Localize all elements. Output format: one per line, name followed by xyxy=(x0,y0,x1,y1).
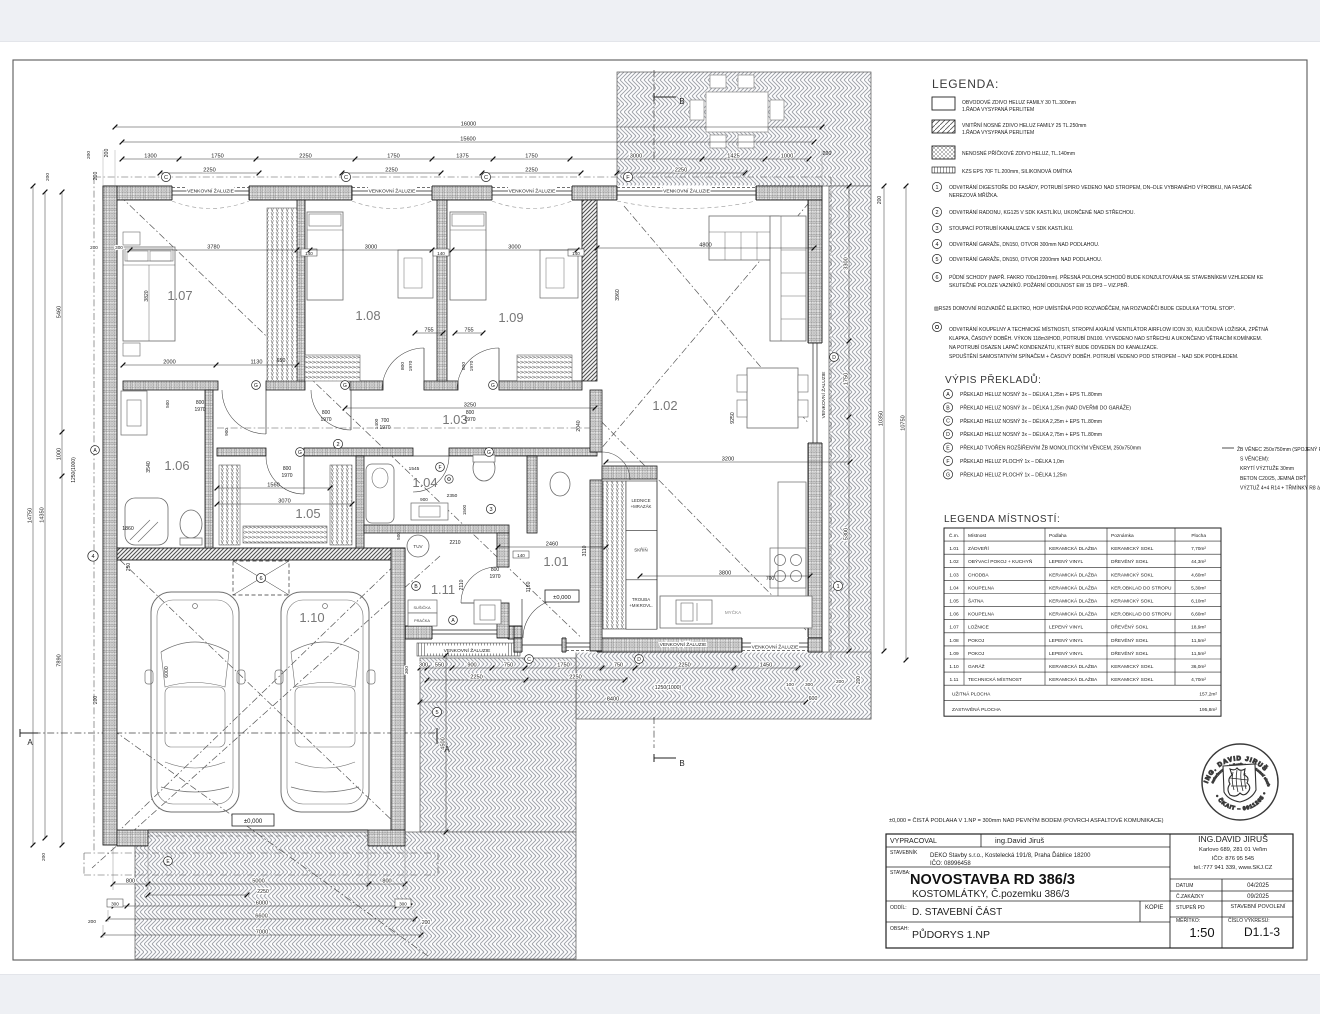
svg-text:SUŠIČKA: SUŠIČKA xyxy=(413,605,430,610)
svg-text:750: 750 xyxy=(504,662,513,668)
svg-text:44,3m²: 44,3m² xyxy=(1191,559,1206,565)
svg-text:ODVěTRÁNÍ KOUPELNY A TECHNICKÉ: ODVěTRÁNÍ KOUPELNY A TECHNICKÉ MÍSTNOSTI… xyxy=(949,325,1269,333)
svg-text:15600: 15600 xyxy=(460,136,476,142)
svg-text:2250: 2250 xyxy=(257,889,269,895)
svg-text:DEKO Stavby s.r.o., Kostelecká: DEKO Stavby s.r.o., Kostelecká 191/8, Pr… xyxy=(930,851,1091,859)
svg-text:1.04: 1.04 xyxy=(412,475,437,490)
svg-text:KER.OBKLAD DO STROPU: KER.OBKLAD DO STROPU xyxy=(1111,612,1172,618)
svg-text:5000: 5000 xyxy=(252,878,264,884)
svg-text:C: C xyxy=(164,175,168,181)
svg-text:1750: 1750 xyxy=(525,153,537,159)
svg-text:BETON C20/25, JEMNÁ DRŤ: BETON C20/25, JEMNÁ DRŤ xyxy=(1240,474,1306,482)
svg-text:LEDNICE: LEDNICE xyxy=(631,498,650,503)
svg-text:2210: 2210 xyxy=(449,540,460,546)
svg-text:PŘEKLAD HELUZ NOSNÝ 3x – DÉLKA: PŘEKLAD HELUZ NOSNÝ 3x – DÉLKA 1,25m + E… xyxy=(960,390,1102,398)
svg-text:VYPRACOVAL: VYPRACOVAL xyxy=(890,838,937,845)
svg-text:ING.DAVID JIRUŠ: ING.DAVID JIRUŠ xyxy=(1198,834,1268,844)
svg-text:TROUBA: TROUBA xyxy=(632,597,650,602)
svg-text:OBSAH:: OBSAH: xyxy=(890,926,909,932)
svg-text:1970: 1970 xyxy=(379,425,390,431)
svg-text:PRAČKA: PRAČKA xyxy=(414,618,430,623)
svg-text:KOUPELNA: KOUPELNA xyxy=(968,612,995,618)
svg-text:3: 3 xyxy=(936,226,939,232)
svg-text:800: 800 xyxy=(491,567,500,573)
svg-text:1750: 1750 xyxy=(211,153,223,159)
svg-text:800: 800 xyxy=(196,400,205,406)
svg-text:1.06: 1.06 xyxy=(164,458,189,473)
svg-text:4,70m²: 4,70m² xyxy=(1191,677,1206,683)
svg-text:ing.David Jiruš: ing.David Jiruš xyxy=(995,836,1044,845)
svg-text:3820: 3820 xyxy=(144,290,150,301)
svg-text:LEPENÝ VINYL: LEPENÝ VINYL xyxy=(1049,558,1083,565)
svg-text:TECHNICKÁ MÍSTNOST: TECHNICKÁ MÍSTNOST xyxy=(968,676,1022,683)
svg-text:1.09: 1.09 xyxy=(498,310,523,325)
svg-text:7890: 7890 xyxy=(56,654,62,666)
svg-text:1970: 1970 xyxy=(489,574,500,580)
svg-text:5460: 5460 xyxy=(56,306,62,318)
svg-text:195,8m²: 195,8m² xyxy=(1199,707,1217,713)
svg-text:Karlovo 689, 281 01 Veľim: Karlovo 689, 281 01 Veľim xyxy=(1199,847,1267,853)
svg-text:PŘEKLAD TVOŘEN ROZŠÍŘENÝM ŽB M: PŘEKLAD TVOŘEN ROZŠÍŘENÝM ŽB MONOLITICKÝ… xyxy=(960,444,1141,452)
svg-text:2350: 2350 xyxy=(447,493,458,499)
svg-text:3200: 3200 xyxy=(722,456,734,462)
svg-text:7000: 7000 xyxy=(256,929,268,935)
svg-text:100: 100 xyxy=(786,682,794,688)
svg-text:D: D xyxy=(832,355,836,361)
svg-text:1970: 1970 xyxy=(464,417,475,423)
svg-text:300: 300 xyxy=(404,666,410,674)
svg-text:G: G xyxy=(491,383,495,389)
svg-text:700: 700 xyxy=(381,418,390,424)
svg-text:4800: 4800 xyxy=(699,242,711,248)
svg-text:±0,000: ±0,000 xyxy=(244,819,263,825)
svg-text:3110: 3110 xyxy=(582,545,588,556)
svg-text:G: G xyxy=(343,383,347,389)
svg-text:STAVEBNÍK: STAVEBNÍK xyxy=(890,849,918,856)
svg-text:G: G xyxy=(946,472,950,478)
svg-text:1.01: 1.01 xyxy=(949,546,959,552)
svg-text:1: 1 xyxy=(936,185,939,191)
svg-text:2110: 2110 xyxy=(459,579,465,590)
svg-text:+MIKROVL.: +MIKROVL. xyxy=(629,603,653,608)
svg-text:OBVODOVÉ ZDIVO HELUZ FAMILY 30: OBVODOVÉ ZDIVO HELUZ FAMILY 30 TL.300mm xyxy=(962,99,1076,106)
svg-text:G: G xyxy=(254,383,258,389)
svg-text:MYČKA: MYČKA xyxy=(725,609,742,615)
svg-text:1450: 1450 xyxy=(760,662,772,668)
svg-text:D1.1-3: D1.1-3 xyxy=(1244,925,1280,939)
svg-text:ŠATNA: ŠATNA xyxy=(968,598,984,605)
svg-text:1130: 1130 xyxy=(250,359,262,365)
svg-text:36,0m²: 36,0m² xyxy=(1191,664,1206,670)
svg-text:1.02: 1.02 xyxy=(949,559,959,565)
svg-text:1000: 1000 xyxy=(781,153,793,159)
svg-text:1970: 1970 xyxy=(194,407,205,413)
svg-text:3070: 3070 xyxy=(278,498,290,504)
svg-text:1000: 1000 xyxy=(56,448,62,460)
svg-text:KOSTOMLÁTKY, Č.pozemku 386/3: KOSTOMLÁTKY, Č.pozemku 386/3 xyxy=(912,887,1070,900)
svg-text:DATUM: DATUM xyxy=(1176,883,1193,889)
svg-text:KERAMICKÝ SOKL: KERAMICKÝ SOKL xyxy=(1111,598,1154,605)
svg-text:200: 200 xyxy=(93,172,99,181)
svg-text:800: 800 xyxy=(461,362,467,370)
svg-text:PŮDORYS 1.NP: PŮDORYS 1.NP xyxy=(912,928,990,941)
svg-text:±0,000 = ČISTÁ PODLAHA V 1.NP: ±0,000 = ČISTÁ PODLAHA V 1.NP = 300mm NA… xyxy=(889,817,1164,824)
svg-text:PŘEKLAD HELUZ NOSNÝ 3x – DÉLKA: PŘEKLAD HELUZ NOSNÝ 3x – DÉLKA 1,25m (NA… xyxy=(960,403,1131,411)
svg-text:1970: 1970 xyxy=(408,360,414,371)
svg-text:04/2025: 04/2025 xyxy=(1247,883,1269,889)
svg-text:4: 4 xyxy=(91,554,94,560)
svg-text:PŘEKLAD HELUZ NOSNÝ 3x – DÉLKA: PŘEKLAD HELUZ NOSNÝ 3x – DÉLKA 2,75m + E… xyxy=(960,430,1102,438)
svg-text:1.08: 1.08 xyxy=(949,638,959,644)
svg-text:3250: 3250 xyxy=(464,402,476,408)
svg-text:2: 2 xyxy=(336,442,339,448)
svg-text:F: F xyxy=(946,459,949,465)
svg-text:1.07: 1.07 xyxy=(949,625,959,631)
svg-text:200: 200 xyxy=(41,853,47,861)
svg-text:3300: 3300 xyxy=(843,257,849,269)
svg-text:F: F xyxy=(438,465,441,471)
svg-text:200: 200 xyxy=(45,173,51,181)
svg-text:800: 800 xyxy=(382,878,391,884)
svg-text:4,60m²: 4,60m² xyxy=(1191,572,1206,578)
svg-text:1.10: 1.10 xyxy=(299,610,324,625)
svg-text:D: D xyxy=(946,432,950,438)
svg-text:18,9m²: 18,9m² xyxy=(1191,625,1206,631)
svg-text:200: 200 xyxy=(86,151,92,159)
svg-text:3780: 3780 xyxy=(207,244,219,250)
svg-text:600: 600 xyxy=(809,696,818,702)
svg-text:1860: 1860 xyxy=(122,526,134,532)
svg-text:MĚŘÍTKO:: MĚŘÍTKO: xyxy=(1176,916,1200,924)
svg-text:B: B xyxy=(946,405,950,411)
svg-text:S VĚNCEM):: S VĚNCEM): xyxy=(1240,455,1269,463)
svg-text:2250: 2250 xyxy=(470,674,482,680)
svg-text:1970: 1970 xyxy=(320,417,331,423)
svg-text:6: 6 xyxy=(936,275,939,281)
svg-text:LEPENÝ VINYL: LEPENÝ VINYL xyxy=(1049,637,1083,644)
svg-text:800: 800 xyxy=(126,878,135,884)
svg-text:SPOUŠTĚNÍ SAMOSTATNÝM SPÍNAČEM: SPOUŠTĚNÍ SAMOSTATNÝM SPÍNAČEM + ČASOVÝ … xyxy=(949,352,1238,360)
svg-text:140: 140 xyxy=(437,251,445,256)
svg-text:2250: 2250 xyxy=(299,153,311,159)
svg-text:900: 900 xyxy=(467,662,476,668)
svg-text:1:50: 1:50 xyxy=(1189,925,1214,940)
svg-text:500: 500 xyxy=(396,532,401,540)
svg-text:3000: 3000 xyxy=(630,153,642,159)
svg-text:ČÍSLO VÝKRESU:: ČÍSLO VÝKRESU: xyxy=(1228,917,1270,924)
svg-text:10750: 10750 xyxy=(900,415,906,431)
svg-text:3: 3 xyxy=(489,507,492,513)
svg-text:LEPENÝ VINYL: LEPENÝ VINYL xyxy=(1049,650,1083,657)
svg-text:1.05: 1.05 xyxy=(295,506,320,521)
svg-text:Č.m.: Č.m. xyxy=(949,532,959,539)
svg-text:5,30m²: 5,30m² xyxy=(1191,585,1206,591)
svg-text:1300: 1300 xyxy=(144,153,156,159)
svg-text:+MRAZÁK: +MRAZÁK xyxy=(631,504,652,509)
svg-text:1.10: 1.10 xyxy=(949,664,959,670)
svg-text:F: F xyxy=(626,175,630,181)
svg-text:KERAMICKÝ SOKL: KERAMICKÝ SOKL xyxy=(1111,571,1154,578)
svg-text:NA POTRUBÍ OSAZEN LAPAČ KONDEN: NA POTRUBÍ OSAZEN LAPAČ KONDENZÁTU, KTER… xyxy=(949,344,1158,351)
svg-text:2040: 2040 xyxy=(576,420,582,431)
svg-text:1750: 1750 xyxy=(387,153,399,159)
svg-text:2000: 2000 xyxy=(163,359,175,365)
svg-text:Č.ZAKÁZKY: Č.ZAKÁZKY xyxy=(1176,893,1204,900)
svg-text:Plocha: Plocha xyxy=(1191,533,1206,539)
svg-text:CHODBA: CHODBA xyxy=(968,572,989,578)
svg-text:1.03: 1.03 xyxy=(949,572,959,578)
svg-text:KOPIE: KOPIE xyxy=(1145,905,1163,911)
svg-text:1160: 1160 xyxy=(526,581,532,592)
svg-text:800: 800 xyxy=(322,410,331,416)
svg-text:1.06: 1.06 xyxy=(949,612,959,618)
svg-text:1970: 1970 xyxy=(281,473,292,479)
svg-text:tel.:777 941 339, www.SKJ.CZ: tel.:777 941 339, www.SKJ.CZ xyxy=(1194,865,1273,871)
svg-text:KERAMICKÝ SOKL: KERAMICKÝ SOKL xyxy=(1111,676,1154,683)
svg-text:5300: 5300 xyxy=(843,528,849,540)
svg-text:10350: 10350 xyxy=(878,411,884,427)
svg-text:3540: 3540 xyxy=(146,461,152,473)
svg-text:OBÝVACÍ POKOJ + KUCHYŇ: OBÝVACÍ POKOJ + KUCHYŇ xyxy=(968,558,1033,565)
svg-text:3000: 3000 xyxy=(365,244,377,250)
svg-text:B: B xyxy=(679,759,684,768)
svg-text:700: 700 xyxy=(766,576,775,582)
svg-text:VÝPIS PŘEKLADŮ:: VÝPIS PŘEKLADŮ: xyxy=(945,373,1041,386)
svg-text:3800: 3800 xyxy=(719,570,731,576)
svg-text:550: 550 xyxy=(435,662,444,668)
svg-text:NOVOSTAVBA RD 386/3: NOVOSTAVBA RD 386/3 xyxy=(910,872,1075,888)
svg-text:NEREZOVÁ MŘÍŽKA.: NEREZOVÁ MŘÍŽKA. xyxy=(949,191,998,199)
svg-text:140: 140 xyxy=(305,251,313,256)
svg-text:4: 4 xyxy=(936,242,939,248)
svg-text:1.09: 1.09 xyxy=(949,651,959,657)
svg-text:300: 300 xyxy=(111,902,119,907)
svg-text:C: C xyxy=(484,175,488,181)
svg-text:Podlaha: Podlaha xyxy=(1049,533,1067,539)
svg-text:C: C xyxy=(344,175,348,181)
svg-text:1: 1 xyxy=(836,584,839,590)
svg-text:1750: 1750 xyxy=(843,373,849,385)
svg-text:SKUTEČNÉ POLOZE VAZNÍKŮ. POŽÁR: SKUTEČNÉ POLOZE VAZNÍKŮ. POŽÁRNÍ ODOLNOS… xyxy=(949,281,1129,289)
svg-text:VNITŘNÍ NOSNÉ ZDIVO HELUZ FAMI: VNITŘNÍ NOSNÉ ZDIVO HELUZ FAMILY 25 TL.2… xyxy=(962,121,1086,129)
svg-text:2250: 2250 xyxy=(385,167,397,173)
svg-text:1750: 1750 xyxy=(557,662,569,668)
svg-text:1500: 1500 xyxy=(462,504,467,515)
svg-text:KLAPKA, ČASOVÝ DOBĚH. VÝKON 11: KLAPKA, ČASOVÝ DOBĚH. VÝKON 118m3/HOD, P… xyxy=(949,334,1262,342)
svg-text:KZS EPS 70F TL.200mm, SILIKONO: KZS EPS 70F TL.200mm, SILIKONOVÁ OMÍTKA xyxy=(962,168,1073,175)
svg-text:A: A xyxy=(27,738,33,747)
svg-text:1.08: 1.08 xyxy=(355,308,380,323)
svg-text:2250: 2250 xyxy=(203,167,215,173)
svg-text:ŽB VĚNEC 250x750mm (SPOJENÝ PŘ: ŽB VĚNEC 250x750mm (SPOJENÝ PŘEKLAD xyxy=(1237,445,1320,453)
svg-text:3000: 3000 xyxy=(508,244,520,250)
svg-text:650: 650 xyxy=(277,358,286,364)
svg-text:750: 750 xyxy=(614,662,623,668)
svg-text:14350: 14350 xyxy=(39,507,45,523)
svg-text:800: 800 xyxy=(283,466,292,472)
svg-text:G: G xyxy=(298,450,302,456)
svg-text:IČO: 08996458: IČO: 08996458 xyxy=(930,860,971,867)
svg-text:ODVěTRÁNÍ RADONU, KG125 V SDK: ODVěTRÁNÍ RADONU, KG125 V SDK KASTLÍKU, … xyxy=(949,208,1135,216)
svg-text:755: 755 xyxy=(464,327,473,333)
svg-text:1970: 1970 xyxy=(469,360,475,371)
svg-text:LEGENDA:: LEGENDA: xyxy=(932,77,999,91)
svg-text:▨RS25 DOMOVNÍ ROZVADĚČ ELEKTRO: ▨RS25 DOMOVNÍ ROZVADĚČ ELEKTRO, HOP UMÍS… xyxy=(934,304,1235,312)
svg-text:6000: 6000 xyxy=(256,900,268,906)
svg-text:2250: 2250 xyxy=(678,662,690,668)
svg-text:LEGENDA MÍSTNOSTÍ:: LEGENDA MÍSTNOSTÍ: xyxy=(944,512,1060,525)
svg-text:1.01: 1.01 xyxy=(543,554,568,569)
svg-text:VÝZTUŽ 4+4 R14 + TŘMÍNKY R8 à: VÝZTUŽ 4+4 R14 + TŘMÍNKY R8 à 150mm xyxy=(1240,483,1320,491)
svg-text:ODDÍL:: ODDÍL: xyxy=(890,904,907,911)
svg-text:1.11: 1.11 xyxy=(431,582,455,597)
svg-text:1.ŘADA VYSYPANÁ PERLITEM: 1.ŘADA VYSYPANÁ PERLITEM xyxy=(962,128,1034,136)
svg-text:1250(1000): 1250(1000) xyxy=(71,457,77,483)
svg-text:6000: 6000 xyxy=(164,666,170,678)
svg-text:6,10m²: 6,10m² xyxy=(1191,599,1206,605)
svg-text:5: 5 xyxy=(936,257,939,263)
svg-text:D: D xyxy=(637,657,641,663)
svg-text:200: 200 xyxy=(836,679,844,685)
svg-text:300: 300 xyxy=(419,662,428,668)
svg-text:500: 500 xyxy=(165,400,170,408)
svg-text:ODVěTRÁNÍ DIGESTOŘE DO FASÁDY,: ODVěTRÁNÍ DIGESTOŘE DO FASÁDY, POTRUBÍ S… xyxy=(949,183,1253,191)
svg-text:1.04: 1.04 xyxy=(949,585,959,591)
svg-text:250: 250 xyxy=(126,563,132,572)
svg-text:1560: 1560 xyxy=(267,482,279,488)
svg-text:STAVBA:: STAVBA: xyxy=(890,870,910,876)
svg-text:SKŘÍŇ: SKŘÍŇ xyxy=(634,547,647,552)
svg-text:11,5m²: 11,5m² xyxy=(1191,638,1206,644)
svg-text:1.07: 1.07 xyxy=(167,288,192,303)
svg-text:A: A xyxy=(946,392,950,398)
svg-text:2: 2 xyxy=(936,210,939,216)
svg-text:D. STAVEBNÍ ČÁST: D. STAVEBNÍ ČÁST xyxy=(912,905,1002,918)
svg-text:ODVěTRÁNÍ GARÁŽE, DN150, OTVOR: ODVěTRÁNÍ GARÁŽE, DN150, OTVOR 300mm NAD… xyxy=(949,240,1099,248)
svg-text:5: 5 xyxy=(435,710,438,716)
svg-text:STAVEBNÍ POVOLENÍ: STAVEBNÍ POVOLENÍ xyxy=(1231,903,1286,910)
svg-text:KER.OBKLAD DO STROPU: KER.OBKLAD DO STROPU xyxy=(1111,585,1172,591)
svg-text:200: 200 xyxy=(856,676,862,685)
svg-text:KRYTÍ VÝZTUŽE 30mm: KRYTÍ VÝZTUŽE 30mm xyxy=(1240,464,1294,472)
svg-text:1425: 1425 xyxy=(727,153,739,159)
svg-text:2250: 2250 xyxy=(569,674,581,680)
svg-text:STOUPACÍ POTRUBÍ KANALIZACE V: STOUPACÍ POTRUBÍ KANALIZACE V SDK KASTLÍ… xyxy=(949,225,1074,232)
svg-text:1.11: 1.11 xyxy=(950,677,959,683)
svg-text:G: G xyxy=(487,450,491,456)
svg-text:300: 300 xyxy=(399,902,407,907)
svg-text:ODVěTRÁNÍ GARÁŽE, DN150, OTVOR: ODVěTRÁNÍ GARÁŽE, DN150, OTVOR 2200mm NA… xyxy=(949,255,1102,263)
svg-text:1.02: 1.02 xyxy=(652,398,677,413)
svg-text:1545: 1545 xyxy=(409,466,420,472)
svg-text:1.ŘADA VYSYPANÁ PERLITEM: 1.ŘADA VYSYPANÁ PERLITEM xyxy=(962,105,1034,113)
svg-text:900: 900 xyxy=(420,497,428,502)
svg-text:16000: 16000 xyxy=(461,121,477,127)
svg-text:14750: 14750 xyxy=(27,508,33,524)
svg-text:200: 200 xyxy=(422,920,431,926)
svg-text:NENOSNÉ PŘÍČKOVÉ ZDIVO HELUZ,: NENOSNÉ PŘÍČKOVÉ ZDIVO HELUZ, TL.140mm xyxy=(962,149,1075,157)
svg-text:11,5m²: 11,5m² xyxy=(1191,651,1206,657)
svg-text:800: 800 xyxy=(400,362,406,370)
svg-text:755: 755 xyxy=(424,327,433,333)
svg-text:C: C xyxy=(946,419,950,425)
svg-text:KOUPELNA: KOUPELNA xyxy=(968,585,995,591)
svg-text:9250: 9250 xyxy=(730,412,736,424)
svg-text:2250: 2250 xyxy=(675,167,687,173)
svg-text:±0,000: ±0,000 xyxy=(553,595,571,601)
svg-text:Poznámka: Poznámka xyxy=(1111,533,1134,539)
svg-text:7,70m²: 7,70m² xyxy=(1191,546,1206,552)
svg-text:2460: 2460 xyxy=(546,541,558,547)
svg-text:140: 140 xyxy=(517,553,525,558)
svg-text:KERAMICKÝ SOKL: KERAMICKÝ SOKL xyxy=(1111,545,1154,552)
svg-text:8400: 8400 xyxy=(607,696,619,702)
svg-text:POKOJ: POKOJ xyxy=(968,638,985,644)
svg-text:200: 200 xyxy=(88,919,96,925)
svg-text:TUV: TUV xyxy=(413,544,423,549)
svg-text:PŘEKLAD HELUZ PLOCHÝ 1x – DÉLK: PŘEKLAD HELUZ PLOCHÝ 1x – DÉLKA 1,25m xyxy=(960,470,1067,478)
svg-text:200: 200 xyxy=(823,151,832,157)
svg-text:E: E xyxy=(946,445,950,451)
svg-text:KERAMICKÝ SOKL: KERAMICKÝ SOKL xyxy=(1111,663,1154,670)
svg-text:200: 200 xyxy=(104,149,110,158)
svg-text:LEPENÝ VINYL: LEPENÝ VINYL xyxy=(1049,624,1083,631)
svg-text:300: 300 xyxy=(115,245,123,250)
svg-text:PŘEKLAD HELUZ PLOCHÝ 1x – DÉLK: PŘEKLAD HELUZ PLOCHÝ 1x – DÉLKA 1,0m xyxy=(960,457,1064,465)
svg-text:300: 300 xyxy=(805,682,813,688)
svg-text:1375: 1375 xyxy=(456,153,468,159)
svg-text:Místnost: Místnost xyxy=(968,533,987,539)
svg-text:140: 140 xyxy=(572,251,580,256)
svg-text:PŘEKLAD HELUZ NOSNÝ 3x – DÉLKA: PŘEKLAD HELUZ NOSNÝ 3x – DÉLKA 2,25m + E… xyxy=(960,417,1102,425)
svg-text:C: C xyxy=(527,657,531,663)
svg-text:2250: 2250 xyxy=(525,167,537,173)
svg-text:6600: 6600 xyxy=(255,913,267,919)
svg-text:09/2025: 09/2025 xyxy=(1247,894,1269,900)
svg-text:B: B xyxy=(679,97,684,106)
svg-text:200: 200 xyxy=(877,196,883,205)
svg-text:3960: 3960 xyxy=(615,289,621,301)
svg-text:1.05: 1.05 xyxy=(949,599,959,605)
svg-text:PŮDNÍ SCHODY (NAPŘ. FAKRO 700x: PŮDNÍ SCHODY (NAPŘ. FAKRO 700x1200mm). P… xyxy=(949,273,1264,281)
svg-text:6,60m²: 6,60m² xyxy=(1191,612,1206,618)
svg-text:STUPEŇ PD: STUPEŇ PD xyxy=(1176,904,1205,911)
svg-text:IČO: 876 95 545: IČO: 876 95 545 xyxy=(1212,855,1255,862)
svg-text:157,2m²: 157,2m² xyxy=(1199,692,1217,698)
svg-text:1250(1000): 1250(1000) xyxy=(655,685,682,691)
svg-text:800: 800 xyxy=(466,410,475,416)
svg-text:200: 200 xyxy=(90,245,98,250)
svg-text:900: 900 xyxy=(224,428,229,436)
svg-text:4500: 4500 xyxy=(440,737,446,749)
svg-text:POKOJ: POKOJ xyxy=(968,651,985,657)
svg-text:200: 200 xyxy=(93,696,99,705)
svg-text:6: 6 xyxy=(259,576,262,582)
